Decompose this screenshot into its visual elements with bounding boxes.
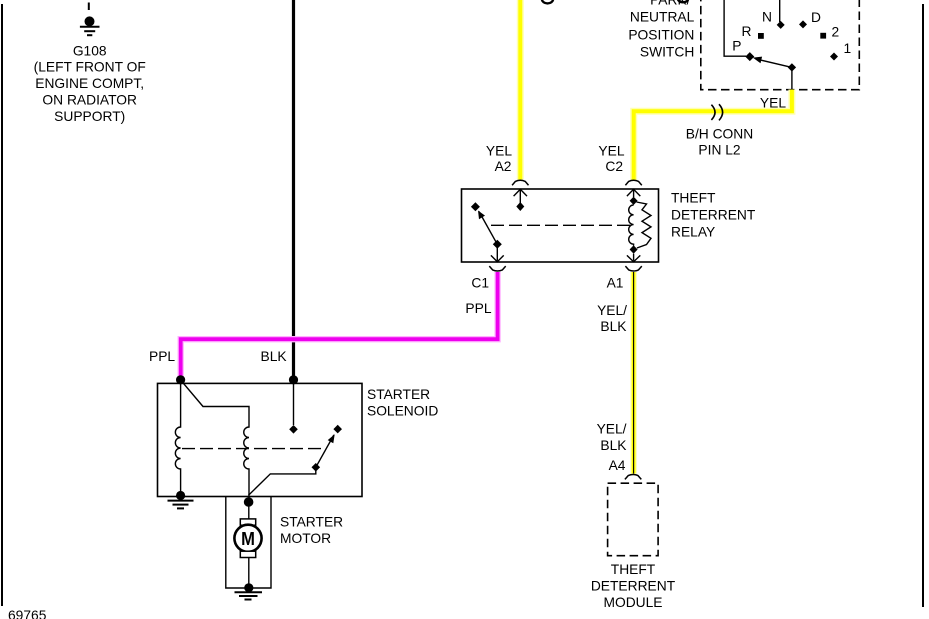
label STARTER SOLENOID (367, 387, 438, 419)
park/neutral switch internal L wire (724, 0, 746, 56)
svg-text:G108: G108 (73, 44, 107, 59)
svg-text:BLK: BLK (261, 349, 288, 364)
svg-text:M: M (241, 529, 255, 549)
svg-text:PIN L2: PIN L2 (698, 143, 740, 158)
gear position labels (732, 10, 851, 57)
svg-text:BLK: BLK (600, 319, 627, 334)
svg-text:YEL/: YEL/ (597, 303, 627, 318)
solenoid ground (168, 501, 194, 509)
svg-text:D: D (811, 10, 821, 25)
svg-text:YEL: YEL (486, 144, 512, 159)
solenoid pull-in coil (175, 382, 185, 500)
theft deterrent module dashed box (608, 483, 659, 556)
label YEL (switch output) (760, 96, 786, 111)
svg-text:POSITION: POSITION (628, 28, 694, 43)
starter motor M (234, 501, 261, 592)
contact D (799, 20, 807, 28)
svg-text:SWITCH: SWITCH (640, 45, 694, 60)
svg-text:STARTER: STARTER (280, 515, 343, 530)
label STARTER MOTOR (280, 515, 343, 547)
svg-text:SOLENOID: SOLENOID (367, 404, 438, 419)
wire PPL from C1 to solenoid (181, 272, 498, 378)
svg-text:PPL: PPL (465, 301, 491, 316)
contact P (745, 52, 754, 61)
svg-text:69765: 69765 (8, 608, 47, 619)
starter motor ground (235, 592, 263, 599)
label A1 YEL/BLK (597, 276, 627, 335)
left page border (1, 4, 3, 606)
label C1 PPL (465, 276, 491, 317)
solenoid contact switch (248, 425, 342, 496)
svg-text:ON RADIATOR: ON RADIATOR (42, 93, 137, 108)
right page border (922, 4, 924, 607)
label YEL A2 (486, 144, 512, 175)
svg-text:YEL: YEL (598, 144, 624, 159)
figure number 69765 (8, 608, 47, 619)
svg-text:MODULE: MODULE (603, 595, 662, 610)
solenoid BLK terminal dot (289, 375, 298, 384)
park/neutral switch dashed box (701, 0, 860, 90)
svg-text:STARTER: STARTER (367, 387, 430, 402)
terminal C1 cup (489, 266, 505, 271)
terminal A2 cup (512, 180, 528, 185)
svg-text:BLK: BLK (600, 438, 627, 453)
svg-text:C2: C2 (605, 159, 623, 174)
park/neutral switch label (clipped first line PARK/) (628, 0, 694, 60)
module terminal A4 cup (625, 475, 641, 480)
solenoid BLK lead (289, 381, 298, 434)
svg-text:2: 2 (832, 25, 840, 40)
svg-text:THEFT: THEFT (611, 562, 656, 577)
label YEL C2 (598, 144, 624, 175)
svg-text:THEFT: THEFT (671, 191, 716, 206)
svg-text:DETERRENT: DETERRENT (671, 208, 756, 223)
starter solenoid box (158, 383, 363, 496)
svg-text:A1: A1 (607, 276, 624, 291)
wire YEL/BLK from A1 to module (630, 272, 637, 474)
terminal C2 arrow (627, 189, 640, 197)
svg-text:NEUTRAL: NEUTRAL (630, 10, 695, 25)
switch wiper arm (753, 57, 796, 90)
terminal A2 arrow (514, 189, 527, 211)
title fragment (clipped at top) (542, 0, 553, 3)
svg-text:(LEFT FRONT OF: (LEFT FRONT OF (34, 60, 146, 75)
solenoid hold-in coil (181, 380, 254, 507)
contact N (777, 21, 785, 29)
contact R (758, 33, 764, 39)
svg-text:A4: A4 (609, 458, 626, 473)
starter motor bracket (226, 497, 271, 589)
svg-text:DETERRENT: DETERRENT (591, 578, 676, 593)
svg-text:1: 1 (844, 41, 852, 56)
label PPL (solenoid) (149, 349, 175, 364)
svg-text:YEL/: YEL/ (597, 422, 627, 437)
svg-text:R: R (742, 24, 752, 39)
solenoid PPL terminal dot (176, 375, 185, 384)
relay switch (471, 202, 504, 261)
svg-text:P: P (732, 39, 741, 54)
contact 2 (820, 33, 826, 39)
wire YEL vertical to relay A2 (517, 0, 524, 180)
relay coil (629, 197, 651, 254)
svg-text:A2: A2 (495, 159, 512, 174)
svg-text:N: N (762, 10, 772, 25)
terminal C2 cup (625, 180, 641, 185)
svg-text:PARK/: PARK/ (650, 0, 691, 8)
svg-text:RELAY: RELAY (671, 225, 715, 240)
svg-text:ENGINE COMPT,: ENGINE COMPT, (35, 76, 144, 91)
svg-text:SUPPORT): SUPPORT) (54, 109, 125, 124)
label YEL/BLK A4 (597, 422, 628, 474)
wire YEL from switch to relay C2 (634, 90, 792, 181)
svg-text:C1: C1 (471, 276, 489, 291)
svg-text:MOTOR: MOTOR (280, 531, 331, 546)
label BLK (261, 349, 288, 364)
terminal A1 cup (625, 266, 641, 271)
label THEFT DETERRENT RELAY (671, 191, 756, 240)
relay coupling dashed link (491, 224, 634, 226)
svg-text:B/H CONN: B/H CONN (686, 127, 753, 142)
label THEFT DETERRENT MODULE (591, 562, 676, 610)
label B/H CONN PIN L2 (686, 127, 753, 158)
ground G108 (80, 3, 100, 36)
solenoid dashed link (182, 448, 324, 450)
label G108 location (34, 44, 146, 125)
title fragment 2 (clipped at top) (678, 0, 688, 2)
B/H connector symbol (711, 104, 722, 120)
theft deterrent relay box (462, 189, 659, 262)
svg-text:YEL: YEL (760, 96, 786, 111)
contact 1 (830, 53, 838, 61)
park/neutral switch feed wire (779, 0, 781, 22)
svg-text:PPL: PPL (149, 349, 175, 364)
terminal A1 arrow (627, 254, 640, 262)
wire BLK vertical to starter solenoid (292, 0, 295, 381)
